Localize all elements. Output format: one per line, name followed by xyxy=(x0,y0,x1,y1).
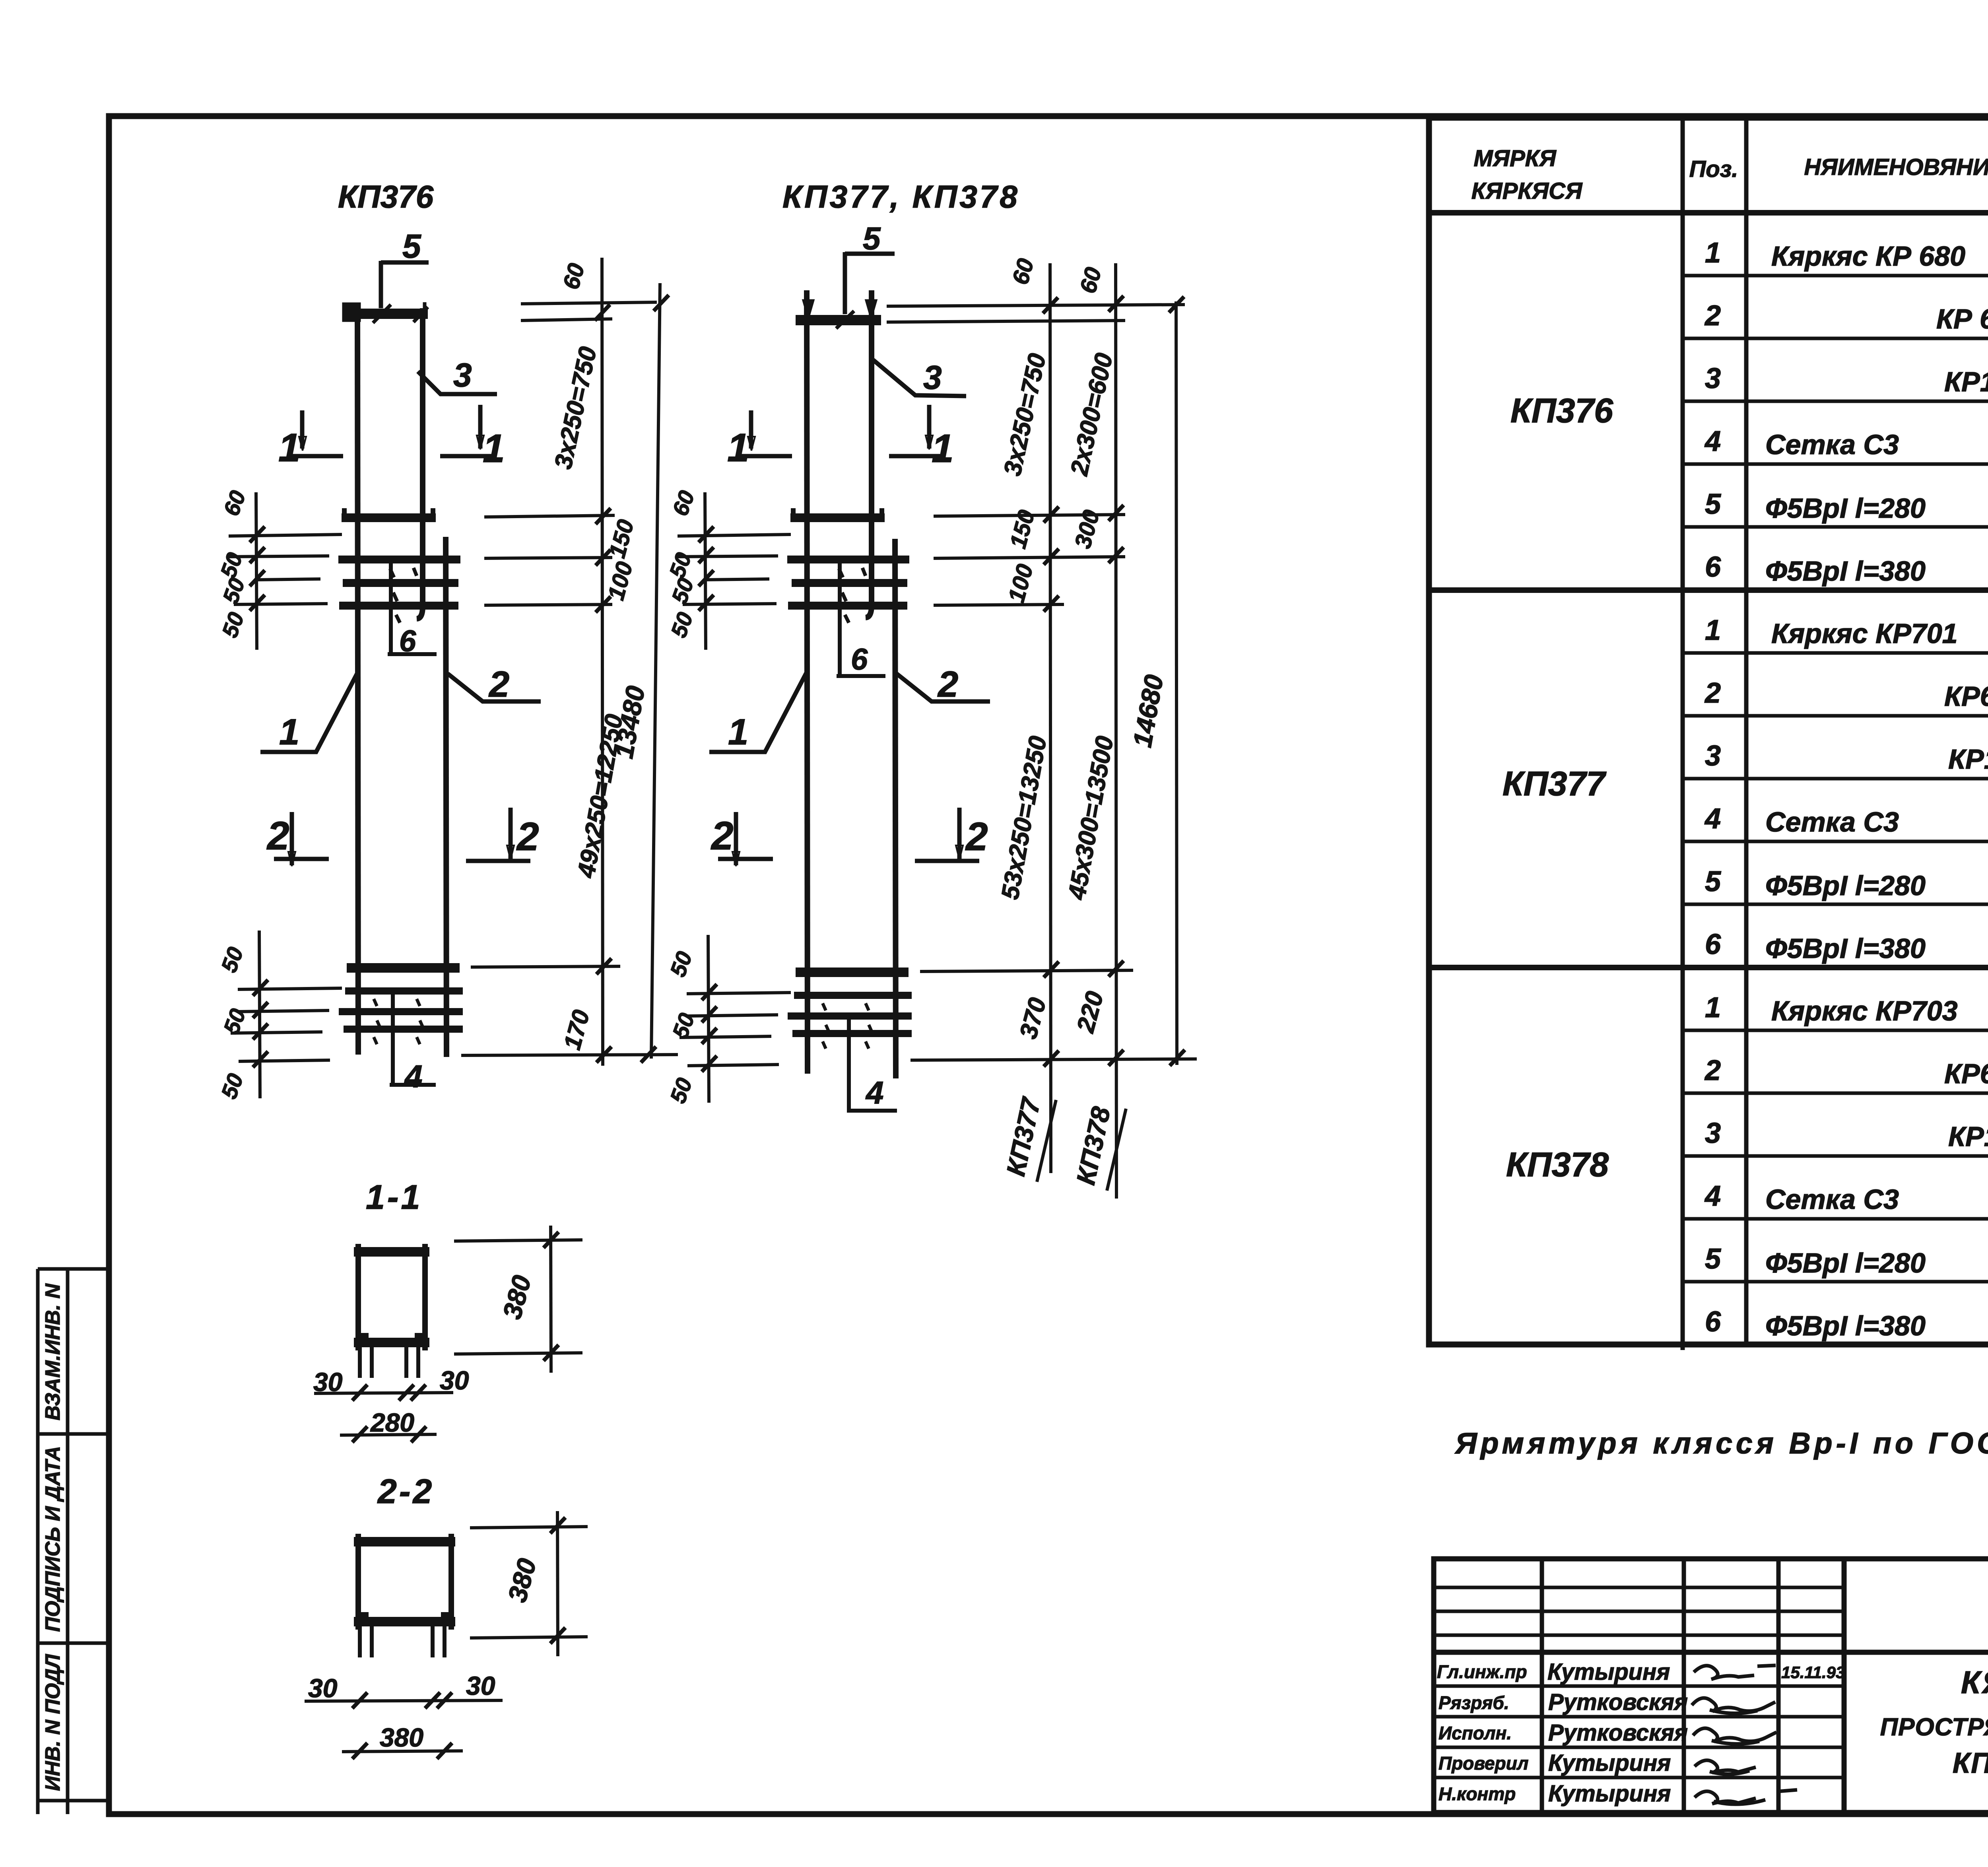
section mark 1-1 left xyxy=(278,410,343,470)
svg-text:50: 50 xyxy=(216,944,248,975)
svg-text:370: 370 xyxy=(1014,995,1051,1042)
svg-text:2-2: 2-2 xyxy=(377,1473,434,1511)
svg-text:Сетка С3: Сетка С3 xyxy=(1765,429,1899,460)
callout number 3 xyxy=(873,359,966,396)
svg-text:КР114: КР114 xyxy=(1944,366,1988,397)
svg-text:60: 60 xyxy=(558,260,589,292)
mid tie hooks xyxy=(839,568,866,623)
bottom tie 1 xyxy=(794,992,912,999)
svg-text:5: 5 xyxy=(1705,488,1721,520)
title block outer xyxy=(1434,1559,1988,1813)
top bar xyxy=(347,309,428,319)
svg-text:2: 2 xyxy=(1704,300,1721,332)
svg-text:15.11.93: 15.11.93 xyxy=(1781,1663,1845,1682)
svg-text:Проверил: Проверил xyxy=(1439,1753,1528,1774)
dim labels col2 line A xyxy=(996,256,1052,1178)
svg-text:КР681: КР681 xyxy=(1944,681,1988,712)
bottom tie 1 xyxy=(345,987,463,995)
left vertical xyxy=(807,290,808,1074)
svg-text:Сетка С3: Сетка С3 xyxy=(1765,806,1899,837)
callout 6 box xyxy=(388,560,437,654)
second bar xyxy=(342,513,436,522)
left ext lines bottom xyxy=(687,993,791,994)
svg-text:50: 50 xyxy=(215,549,247,581)
dim ticks col2 xyxy=(699,296,1185,1072)
svg-text:1: 1 xyxy=(483,426,505,471)
svg-text:100: 100 xyxy=(603,559,638,603)
top bar xyxy=(796,315,881,325)
svg-text:КП376: КП376 xyxy=(1510,392,1613,430)
svg-text:2: 2 xyxy=(937,664,958,705)
callout 4 box xyxy=(390,993,436,1085)
callout 5 arrow tick xyxy=(373,305,391,323)
signatures squiggles xyxy=(1692,1665,1797,1804)
svg-text:Кутыриня: Кутыриня xyxy=(1548,1781,1671,1807)
1-1 dim line 30s xyxy=(314,1393,453,1393)
svg-text:50: 50 xyxy=(666,575,699,606)
top bar right arrow xyxy=(866,300,876,318)
svg-text:5: 5 xyxy=(863,221,881,256)
svg-text:6: 6 xyxy=(1705,551,1721,583)
dim line C (14680) xyxy=(1176,301,1177,1065)
svg-text:1: 1 xyxy=(932,426,954,471)
callout number 1 xyxy=(260,673,357,752)
svg-text:КР114: КР114 xyxy=(1948,744,1988,775)
svg-text:4: 4 xyxy=(1704,1180,1721,1212)
svg-text:2: 2 xyxy=(711,814,734,858)
svg-text:1: 1 xyxy=(279,712,299,752)
mid tie 3 xyxy=(339,602,458,610)
svg-text:60: 60 xyxy=(218,487,250,519)
svg-text:Кяркяс КР703: Кяркяс КР703 xyxy=(1771,995,1958,1026)
group separator after КП377 xyxy=(1429,965,1988,970)
2-2 legs below xyxy=(360,1626,445,1657)
svg-text:КП378: КП378 xyxy=(1506,1146,1609,1184)
dim labels col1 left xyxy=(215,487,250,1102)
section mark 1-1 left xyxy=(727,410,792,470)
ext bar2 xyxy=(934,515,1125,516)
group labels xyxy=(1503,385,1988,1184)
section mark 2-2 left xyxy=(266,812,329,866)
dim ext bottom end xyxy=(461,1055,678,1055)
svg-text:4: 4 xyxy=(1704,803,1721,835)
svg-text:ПРОСТРЯНСТВЕННЫЙ: ПРОСТРЯНСТВЕННЫЙ xyxy=(1880,1713,1988,1741)
svg-text:30: 30 xyxy=(313,1367,343,1397)
svg-text:Кутыриня: Кутыриня xyxy=(1547,1659,1670,1685)
svg-text:60: 60 xyxy=(667,487,699,519)
svg-text:2: 2 xyxy=(266,814,289,858)
section mark 2-2 right xyxy=(466,808,539,861)
2-2 square right xyxy=(448,1534,454,1630)
left dim line mid xyxy=(705,492,706,650)
svg-text:Ф5ВрI l=280: Ф5ВрI l=280 xyxy=(1765,1247,1926,1278)
right vertical lower xyxy=(446,537,447,1057)
2-2 dim line 380b xyxy=(342,1751,463,1752)
2-2 square left xyxy=(355,1534,361,1630)
1-1 square top bar xyxy=(354,1247,429,1257)
svg-text:2: 2 xyxy=(488,664,509,705)
Поз numbers xyxy=(1704,237,1721,1338)
top bar left cap xyxy=(344,305,359,320)
mid tie 2 xyxy=(343,579,458,587)
stamp vertical lines xyxy=(1540,1559,1544,1812)
ext bottom bar xyxy=(920,970,1133,971)
svg-text:5: 5 xyxy=(1705,866,1721,898)
section mark 1-1 right xyxy=(889,405,954,471)
2-2 dim ticks xyxy=(352,1517,565,1759)
1-1 square bottom bar xyxy=(354,1338,429,1347)
svg-text:2: 2 xyxy=(1704,1055,1721,1086)
ext 100 bottom level xyxy=(934,604,1064,605)
bottom cluster top bar xyxy=(347,963,460,973)
svg-text:60: 60 xyxy=(1007,256,1039,287)
svg-text:4: 4 xyxy=(404,1059,423,1094)
svg-text:1: 1 xyxy=(728,712,748,752)
bottom tie 2 xyxy=(788,1012,912,1020)
svg-text:50: 50 xyxy=(665,1074,697,1106)
row lines block 1 xyxy=(1683,274,1988,278)
dim line 2 (13480) xyxy=(651,283,660,1059)
name rows xyxy=(1434,1684,1844,1688)
svg-text:Ф5ВрI l=280: Ф5ВрI l=280 xyxy=(1765,493,1926,524)
svg-text:КП377: КП377 xyxy=(1503,765,1607,803)
bottom cluster top bar xyxy=(796,967,909,977)
dim labels col2 line B xyxy=(1063,264,1118,1187)
section mark 2-2 left xyxy=(711,812,773,866)
svg-text:60: 60 xyxy=(1075,264,1106,296)
svg-text:100: 100 xyxy=(1003,561,1038,605)
svg-text:220: 220 xyxy=(1072,989,1109,1036)
second bar end caps xyxy=(344,508,433,518)
svg-text:КП376: КП376 xyxy=(338,179,434,214)
right vertical lower xyxy=(895,539,896,1078)
svg-text:Кяркяс КР 680: Кяркяс КР 680 xyxy=(1771,241,1965,272)
svg-text:50: 50 xyxy=(664,549,696,581)
top small rows xyxy=(1434,1586,1844,1589)
svg-text:Сетка С3: Сетка С3 xyxy=(1765,1184,1899,1215)
mid tie 2 xyxy=(792,579,907,587)
1-1 dim line 380 xyxy=(551,1226,551,1373)
left ext lines mid xyxy=(678,534,791,536)
ext 150/300 level xyxy=(934,557,1125,558)
svg-text:Рутковскяя: Рутковскяя xyxy=(1548,1689,1688,1715)
svg-text:3: 3 xyxy=(923,359,942,396)
2-2 dim line 30s xyxy=(305,1700,503,1701)
svg-text:50: 50 xyxy=(217,575,250,606)
svg-text:150: 150 xyxy=(1005,507,1040,551)
КП377 КП378 underline marks xyxy=(1037,1100,1126,1191)
mid tie 3 xyxy=(788,602,907,610)
svg-text:Кутыриня: Кутыриня xyxy=(1548,1750,1671,1776)
svg-text:1-1: 1-1 xyxy=(366,1178,422,1216)
svg-text:50: 50 xyxy=(665,948,697,980)
svg-text:Ф5ВрI l=380: Ф5ВрI l=380 xyxy=(1765,556,1926,587)
dim labels col1 right xyxy=(549,260,650,1052)
top double ext xyxy=(887,305,1185,306)
svg-text:3: 3 xyxy=(1705,1117,1721,1149)
left ext lines bottom xyxy=(238,988,342,989)
svg-text:ПОДПИСЬ И ДАТА: ПОДПИСЬ И ДАТА xyxy=(41,1446,64,1632)
svg-text:50: 50 xyxy=(666,609,698,641)
right vertical upper (bar 3) xyxy=(866,290,872,618)
svg-text:Ф5ВрI l=380: Ф5ВрI l=380 xyxy=(1765,1310,1926,1341)
svg-text:170: 170 xyxy=(559,1007,595,1053)
svg-text:КР 658: КР 658 xyxy=(1936,303,1988,334)
2-2 dim line 380 xyxy=(557,1511,558,1656)
left dim line bottom xyxy=(708,935,709,1103)
svg-text:КП376...КП378: КП376...КП378 xyxy=(1953,1747,1988,1779)
bottom tie 3 xyxy=(344,1026,463,1033)
mid tie 1 xyxy=(338,556,460,563)
2-2 dim ext right xyxy=(470,1527,588,1528)
svg-text:5: 5 xyxy=(402,227,421,265)
svg-text:КЯРКЯСЯ: КЯРКЯСЯ xyxy=(1472,178,1583,204)
svg-text:50: 50 xyxy=(217,609,249,641)
callout 5 box xyxy=(845,252,895,314)
svg-text:6: 6 xyxy=(1705,929,1721,960)
svg-text:3: 3 xyxy=(1705,363,1721,394)
svg-text:1: 1 xyxy=(1705,237,1721,269)
svg-text:380: 380 xyxy=(502,1555,542,1605)
svg-text:Ф5ВрI l=280: Ф5ВрI l=280 xyxy=(1765,870,1926,901)
dim labels col2 left xyxy=(664,487,699,1106)
row lines block 2 xyxy=(1683,651,1988,655)
column line Наименование xyxy=(1744,118,1749,1344)
section mark 1-1 right xyxy=(440,405,505,471)
svg-text:Исполн.: Исполн. xyxy=(1439,1723,1512,1743)
left vertical xyxy=(357,308,358,1055)
svg-text:5: 5 xyxy=(1705,1243,1721,1275)
svg-text:4: 4 xyxy=(1704,425,1721,457)
svg-text:53x250=13250: 53x250=13250 xyxy=(996,734,1052,901)
svg-text:6: 6 xyxy=(399,624,416,658)
bottom tie 2 xyxy=(339,1008,463,1015)
1-1 square left xyxy=(355,1244,361,1350)
dim ticks col1 xyxy=(250,295,669,1067)
header texts xyxy=(1472,138,1988,215)
svg-text:30: 30 xyxy=(308,1673,338,1703)
svg-text:Ярмятуря клясся Вр-I по ГО: Ярмятуря клясся Вр-I по ГОСТ 6727-80 xyxy=(1454,1426,1988,1460)
svg-text:2: 2 xyxy=(965,814,988,859)
column line Поз xyxy=(1681,118,1685,1350)
personnel names xyxy=(1547,1659,1688,1807)
1-1 square right xyxy=(422,1244,428,1350)
svg-text:150: 150 xyxy=(604,517,639,561)
second bar end caps xyxy=(793,508,882,518)
left dim line bottom xyxy=(259,931,260,1098)
bottom tie hooks xyxy=(374,999,423,1044)
2-2 corner dots xyxy=(360,1612,450,1618)
svg-text:Поз.: Поз. xyxy=(1689,156,1738,182)
1-1 corner dots xyxy=(360,1333,423,1339)
left dim line mid xyxy=(256,492,257,650)
svg-text:30: 30 xyxy=(466,1671,495,1700)
svg-text:380: 380 xyxy=(497,1272,537,1322)
svg-text:3: 3 xyxy=(1705,740,1721,772)
mid tie hooks xyxy=(390,568,417,623)
second bar xyxy=(790,513,885,522)
2-2 square top bar xyxy=(354,1537,455,1546)
callout number 1 xyxy=(709,673,806,752)
2-2 square bottom bar xyxy=(354,1617,455,1626)
section mark 2-2 right xyxy=(915,808,988,861)
svg-text:1: 1 xyxy=(1705,614,1721,646)
svg-text:50: 50 xyxy=(216,1070,248,1102)
dim line B xyxy=(1116,263,1116,1199)
svg-text:Кяркяс КР701: Кяркяс КР701 xyxy=(1771,618,1958,649)
svg-text:НЯИМЕНОВЯНИЕ: НЯИМЕНОВЯНИЕ xyxy=(1804,154,1988,180)
svg-text:2x300=600: 2x300=600 xyxy=(1066,351,1118,478)
dim ext mid: tie1 xyxy=(484,558,612,558)
dim ext mid: tie3 xyxy=(484,604,612,605)
svg-text:КР682: КР682 xyxy=(1944,1058,1988,1089)
svg-text:3: 3 xyxy=(453,356,472,394)
ext bottom end xyxy=(911,1059,1197,1060)
svg-text:Гл.инж.пр: Гл.инж.пр xyxy=(1437,1661,1527,1682)
mid tie 1 xyxy=(787,556,909,563)
svg-text:2: 2 xyxy=(1704,677,1721,709)
svg-text:280: 280 xyxy=(370,1408,414,1437)
Наименование texts xyxy=(1765,241,1988,1341)
personnel rows labels xyxy=(1437,1661,1528,1804)
callout number 3 xyxy=(418,356,497,394)
svg-text:3x250=750: 3x250=750 xyxy=(999,351,1051,478)
svg-text:Рязряб.: Рязряб. xyxy=(1439,1692,1509,1713)
1-1 dim ticks xyxy=(352,1232,559,1442)
1-1 legs below xyxy=(360,1347,418,1378)
svg-text:1: 1 xyxy=(1705,992,1721,1024)
svg-text:13480: 13480 xyxy=(609,684,650,761)
svg-text:2: 2 xyxy=(516,814,539,859)
svg-text:МЯРКЯ: МЯРКЯ xyxy=(1474,146,1557,171)
1-1 dim line 280 xyxy=(340,1434,437,1435)
svg-text:ВЗАМ.ИНВ. N: ВЗАМ.ИНВ. N xyxy=(41,1283,64,1420)
svg-text:1: 1 xyxy=(727,425,749,470)
1-1 dim ext right xyxy=(454,1240,582,1241)
bottom tie hooks xyxy=(823,1003,872,1049)
dim line 1 xyxy=(602,258,603,1066)
svg-text:1: 1 xyxy=(278,425,301,470)
callout number 2 xyxy=(897,664,990,705)
title horizontal main separator xyxy=(1434,1650,1988,1655)
svg-text:КР117: КР117 xyxy=(1948,1121,1988,1152)
dim ext bottom bar xyxy=(471,966,620,967)
svg-text:КЯРКЯС: КЯРКЯС xyxy=(1961,1665,1988,1700)
svg-text:Рутковскяя: Рутковскяя xyxy=(1548,1720,1688,1746)
right vertical upper (bar 3) xyxy=(417,308,423,619)
dim extension lines top xyxy=(228,258,678,1098)
svg-text:Ф5ВрI l=380: Ф5ВрI l=380 xyxy=(1765,933,1926,964)
callout number 2 xyxy=(448,664,541,705)
stamp strip boxes xyxy=(38,1269,109,1814)
top bar left arrow xyxy=(803,300,813,318)
dim ext mid: bar2 xyxy=(484,515,615,517)
bottom tie 3 xyxy=(792,1030,912,1037)
dim line A xyxy=(1050,263,1051,1173)
svg-text:14680: 14680 xyxy=(1127,672,1169,750)
row lines block 3 xyxy=(1683,1029,1988,1032)
header bottom line xyxy=(1429,210,1988,216)
table outer box xyxy=(1429,118,1988,1344)
svg-text:ИНВ. N ПОДЛ: ИНВ. N ПОДЛ xyxy=(41,1654,64,1791)
svg-text:6: 6 xyxy=(851,643,868,676)
svg-text:3x250=750: 3x250=750 xyxy=(549,344,602,472)
svg-text:30: 30 xyxy=(440,1366,469,1395)
svg-text:380: 380 xyxy=(380,1723,423,1752)
left ext lines mid xyxy=(229,534,342,536)
svg-text:45x300=13500: 45x300=13500 xyxy=(1063,734,1118,902)
svg-text:4: 4 xyxy=(865,1075,884,1110)
group separator after КП376 xyxy=(1429,587,1988,593)
svg-text:6: 6 xyxy=(1705,1306,1721,1338)
callout 5 box xyxy=(381,261,429,308)
dim extension lines xyxy=(677,263,1197,1199)
svg-text:Н.контр: Н.контр xyxy=(1439,1783,1516,1804)
callout 6 box xyxy=(837,560,885,676)
callout 4 box xyxy=(847,1018,897,1111)
svg-text:КП377, КП378: КП377, КП378 xyxy=(782,179,1020,214)
